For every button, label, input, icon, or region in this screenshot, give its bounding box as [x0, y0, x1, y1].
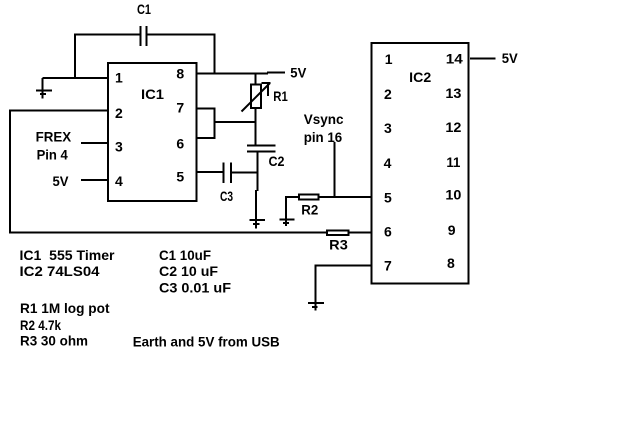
- svg-text:2: 2: [115, 105, 123, 121]
- wire junction down to ground: [256, 173, 258, 229]
- wire R1 top stub: [255, 73, 257, 85]
- wire R3 right to IC2 pin 6: [350, 232, 372, 234]
- svg-text:C3: C3: [220, 188, 233, 204]
- svg-text:5: 5: [384, 190, 392, 206]
- svg-text:6: 6: [384, 224, 392, 240]
- resistor R3 body: [327, 231, 349, 236]
- svg-text:IC2 74LS04: IC2 74LS04: [20, 263, 100, 279]
- svg-text:9: 9: [448, 222, 456, 238]
- wire R2 left lead to ground: [286, 196, 299, 226]
- wire C1 left to pin 1 node: [75, 34, 141, 80]
- wire C2 bottom to junction: [257, 152, 259, 174]
- wire pin 5 to C3: [196, 171, 224, 173]
- svg-text:12: 12: [445, 119, 461, 135]
- wire C3 right to junction: [231, 172, 258, 174]
- potentiometer R1 body: [251, 85, 261, 109]
- svg-text:C2: C2: [269, 153, 285, 169]
- wire pin 2 to R3 (long loop): [10, 111, 326, 233]
- svg-text:3: 3: [384, 120, 392, 136]
- svg-text:5V: 5V: [53, 173, 70, 189]
- svg-text:FREX: FREX: [36, 129, 72, 145]
- svg-text:4: 4: [384, 155, 392, 171]
- wire IC2 pin 7 to ground: [316, 265, 372, 311]
- wire pin 8 to 5V and R1: [196, 73, 285, 74]
- wire R2 right to IC2 pin 5: [319, 196, 372, 198]
- svg-text:C1 10uF: C1 10uF: [159, 247, 211, 263]
- IC2 74LS04 box U2: [372, 43, 469, 284]
- capacitor C3: [224, 163, 232, 184]
- svg-text:3: 3: [115, 139, 123, 155]
- svg-text:Pin 4: Pin 4: [37, 146, 68, 162]
- svg-text:4: 4: [115, 173, 123, 189]
- svg-text:R3 30 ohm: R3 30 ohm: [20, 333, 88, 349]
- svg-text:IC1 555 Timer: IC1 555 Timer: [20, 247, 116, 263]
- resistor R2 body: [299, 195, 319, 200]
- svg-text:Earth and 5V from USB: Earth and 5V from USB: [133, 334, 280, 350]
- svg-text:1: 1: [385, 51, 393, 67]
- svg-text:8: 8: [176, 65, 184, 81]
- svg-text:R1 1M log pot: R1 1M log pot: [20, 300, 110, 316]
- potentiometer R1 arrow: [242, 83, 271, 112]
- wire IC2 pin 14 to 5V: [470, 58, 496, 60]
- ground at IC2 pin 7: [308, 303, 324, 307]
- svg-text:C3 0.01 uF: C3 0.01 uF: [159, 280, 231, 296]
- svg-text:5V: 5V: [290, 64, 307, 80]
- svg-text:pin 16: pin 16: [304, 129, 343, 145]
- wire Vsync drop: [334, 142, 336, 197]
- svg-text:IC2: IC2: [409, 69, 431, 85]
- svg-text:14: 14: [446, 51, 463, 67]
- svg-text:R3: R3: [329, 237, 348, 253]
- wire pin 4 5V: [81, 179, 108, 181]
- svg-text:2: 2: [384, 86, 392, 102]
- svg-text:5: 5: [176, 168, 184, 184]
- svg-text:5V: 5V: [502, 50, 519, 66]
- svg-text:6: 6: [176, 135, 184, 151]
- wire R1 bottom to C2 top: [255, 109, 257, 146]
- capacitor C2: [247, 146, 276, 152]
- svg-text:C1: C1: [137, 1, 151, 17]
- svg-text:R1: R1: [273, 88, 288, 104]
- IC1 555 timer box U1: [108, 63, 197, 201]
- svg-text:Vsync: Vsync: [304, 111, 344, 127]
- svg-text:C2 10 uF: C2 10 uF: [159, 263, 218, 279]
- svg-text:10: 10: [445, 186, 461, 202]
- svg-text:11: 11: [446, 154, 460, 170]
- svg-text:R2 4.7k: R2 4.7k: [20, 317, 61, 333]
- wire pin 3 FREX: [81, 142, 108, 144]
- svg-text:8: 8: [447, 255, 455, 271]
- wire pin 7 to pin 6 loop: [196, 109, 215, 139]
- capacitor C1: [141, 26, 147, 46]
- ground at pin 1: [36, 78, 52, 99]
- svg-text:R2: R2: [301, 202, 318, 218]
- svg-text:1: 1: [115, 70, 123, 86]
- wire loop to R1 bottom node: [215, 121, 257, 123]
- svg-text:13: 13: [445, 85, 461, 101]
- wire C1 right to pin 8 node: [147, 34, 215, 75]
- ground at R2: [280, 219, 295, 223]
- svg-text:7: 7: [176, 99, 184, 115]
- svg-text:7: 7: [384, 258, 392, 274]
- ground below C2 C3 junction: [249, 220, 265, 224]
- wire pin 1: [43, 77, 109, 79]
- svg-text:IC1: IC1: [141, 86, 164, 102]
